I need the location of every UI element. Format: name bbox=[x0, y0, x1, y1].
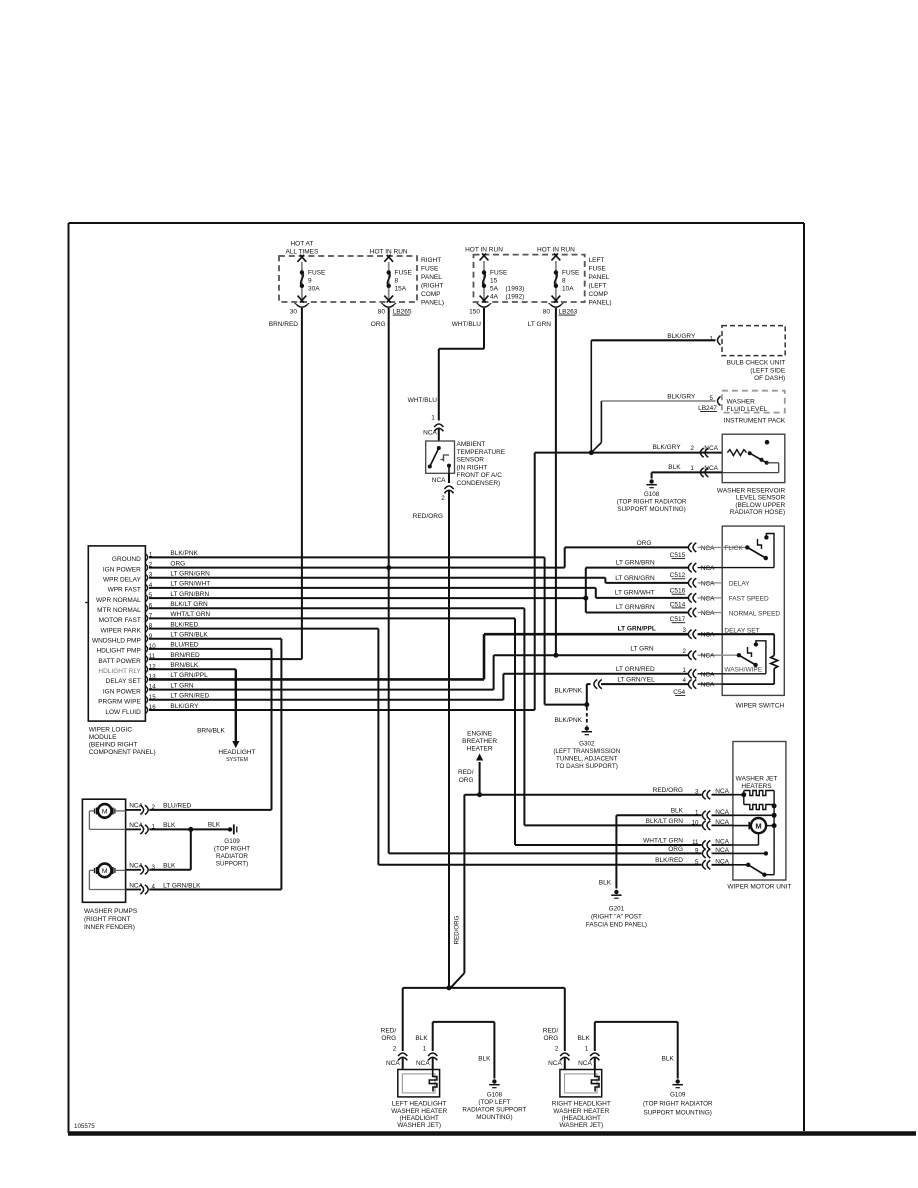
svg-text:FUSE: FUSE bbox=[395, 270, 413, 277]
wire BLK left heater to G108 bbox=[433, 1022, 495, 1079]
svg-text:TO DASH SUPPORT): TO DASH SUPPORT) bbox=[556, 763, 618, 770]
switch wire LT GRN pin2 WASH/WIPE bbox=[630, 646, 739, 660]
svg-text:NCA: NCA bbox=[578, 1060, 592, 1067]
wire 3 LT GRN/GRN to switch DELAY bbox=[149, 578, 688, 583]
svg-text:MODULE: MODULE bbox=[89, 734, 117, 741]
svg-text:WASH/WIPE: WASH/WIPE bbox=[724, 666, 762, 673]
wire 12 BRN/BLK to headlight system bbox=[149, 669, 256, 763]
switch wire LT GRN/GRN C516 DELAY bbox=[615, 575, 750, 595]
svg-text:FASCIA END PANEL): FASCIA END PANEL) bbox=[586, 922, 647, 929]
svg-text:ORG: ORG bbox=[170, 560, 185, 567]
svg-text:NORMAL SPEED: NORMAL SPEED bbox=[729, 611, 781, 618]
svg-text:WHT/LT GRN: WHT/LT GRN bbox=[170, 611, 210, 618]
svg-text:WHT/BLU: WHT/BLU bbox=[452, 321, 482, 328]
pump pin2 BLU/RED bbox=[126, 803, 192, 815]
svg-text:(RIGHT: (RIGHT bbox=[421, 283, 443, 290]
svg-text:C54: C54 bbox=[673, 689, 685, 696]
svg-text:LT GRN/RED: LT GRN/RED bbox=[170, 693, 209, 700]
svg-text:BLK/GRY: BLK/GRY bbox=[667, 333, 696, 340]
svg-text:BRN/RED: BRN/RED bbox=[269, 321, 299, 328]
switch wire LT GRN/RED pin1 bbox=[616, 666, 722, 678]
svg-text:G302: G302 bbox=[579, 741, 595, 748]
svg-text:BRN/BLK: BRN/BLK bbox=[197, 728, 225, 735]
svg-text:2: 2 bbox=[393, 1046, 397, 1053]
ground G109 top right radiator bbox=[643, 1079, 713, 1116]
svg-text:FUSE: FUSE bbox=[562, 270, 580, 277]
ambient temperature sensor bbox=[426, 441, 506, 487]
svg-text:HEATER: HEATER bbox=[467, 746, 493, 753]
svg-text:BLK/RED: BLK/RED bbox=[170, 621, 198, 628]
svg-text:DELAY: DELAY bbox=[729, 581, 750, 588]
motor pin5 BLK/RED bbox=[655, 857, 733, 869]
svg-text:FUSE: FUSE bbox=[589, 266, 607, 273]
svg-text:BLK/PNK: BLK/PNK bbox=[555, 717, 583, 724]
svg-text:C516: C516 bbox=[670, 588, 686, 595]
right fuse panel box bbox=[279, 256, 444, 307]
svg-text:LEFT: LEFT bbox=[589, 257, 605, 264]
fuse F8 15A bbox=[370, 249, 413, 316]
wire BLK to G201 bbox=[599, 815, 702, 888]
svg-text:NCA: NCA bbox=[701, 610, 715, 617]
svg-text:150: 150 bbox=[469, 309, 480, 316]
svg-text:WASHER RESERVOIR: WASHER RESERVOIR bbox=[717, 488, 786, 495]
switch wire LT GRN/WHT C514 FAST SPEED bbox=[615, 589, 769, 608]
svg-text:BLK/GRY: BLK/GRY bbox=[667, 394, 696, 401]
svg-text:WHT/LT GRN: WHT/LT GRN bbox=[643, 837, 683, 844]
svg-text:AMBIENT: AMBIENT bbox=[457, 441, 486, 448]
wire 1 BLK/PNK to G302 bbox=[149, 557, 587, 704]
motor pin10 BLK/LT GRN bbox=[646, 818, 733, 830]
node RED/ORG junction breather bbox=[477, 792, 482, 797]
svg-text:ORG: ORG bbox=[637, 540, 652, 547]
svg-text:M: M bbox=[102, 868, 108, 875]
svg-text:11: 11 bbox=[692, 839, 699, 846]
wire BLK/GRY LB247 to instrument pack pin5 bbox=[591, 394, 720, 453]
wire RED/ORG to headlight washer heaters bbox=[403, 988, 565, 1051]
wiper logic module U1 bbox=[85, 546, 155, 756]
svg-text:HOT IN RUN: HOT IN RUN bbox=[370, 249, 408, 256]
svg-text:M: M bbox=[755, 822, 761, 831]
motor pin3 RED/ORG bbox=[653, 787, 733, 799]
motor pin11 WHT/LT GRN bbox=[643, 837, 733, 849]
svg-text:ORG: ORG bbox=[668, 846, 683, 853]
svg-text:C514: C514 bbox=[670, 601, 686, 608]
svg-text:RADIATOR HOSE): RADIATOR HOSE) bbox=[730, 509, 785, 516]
svg-text:MTR NORMAL: MTR NORMAL bbox=[97, 607, 141, 614]
washer pump motor 2 bbox=[89, 864, 125, 890]
wire BLK/GRY to bulb check pin1 bbox=[591, 333, 720, 453]
right headlight washer heater bbox=[560, 1070, 602, 1097]
svg-text:G108: G108 bbox=[487, 1092, 503, 1099]
svg-text:PANEL: PANEL bbox=[589, 274, 610, 281]
svg-text:(BEHIND RIGHT: (BEHIND RIGHT bbox=[89, 742, 138, 749]
ground G108 radiator support bbox=[617, 479, 687, 513]
svg-text:RED/ORG: RED/ORG bbox=[413, 513, 443, 520]
svg-text:BREATHER: BREATHER bbox=[462, 738, 497, 745]
svg-text:BLK/GRY: BLK/GRY bbox=[653, 444, 682, 451]
svg-text:BLK: BLK bbox=[478, 1056, 491, 1063]
svg-text:NCA: NCA bbox=[715, 847, 729, 854]
svg-text:SUPPORT): SUPPORT) bbox=[216, 861, 248, 868]
washer pump motor 1 bbox=[89, 804, 125, 829]
left headlight washer heater pin2 RED/ORG bbox=[381, 1028, 408, 1070]
svg-text:WASHER JET: WASHER JET bbox=[736, 776, 778, 783]
svg-text:NCA: NCA bbox=[701, 682, 715, 689]
svg-text:NCA: NCA bbox=[701, 632, 715, 639]
svg-text:HDLIGHT PMP: HDLIGHT PMP bbox=[96, 648, 140, 655]
svg-text:BLK: BLK bbox=[163, 863, 176, 870]
ground G302 transmission tunnel bbox=[553, 707, 620, 770]
svg-text:(RIGHT FRONT: (RIGHT FRONT bbox=[84, 916, 130, 923]
svg-text:LT GRN/BRN: LT GRN/BRN bbox=[616, 560, 655, 567]
svg-text:SUPPORT MOUNTING): SUPPORT MOUNTING) bbox=[644, 1110, 712, 1117]
svg-text:RIGHT HEADLIGHT: RIGHT HEADLIGHT bbox=[552, 1101, 611, 1108]
svg-text:LT GRN: LT GRN bbox=[528, 321, 552, 328]
svg-text:HOT IN RUN: HOT IN RUN bbox=[537, 247, 575, 254]
svg-text:WIPER SWITCH: WIPER SWITCH bbox=[736, 703, 785, 710]
svg-text:(LEFT SIDE: (LEFT SIDE bbox=[750, 367, 786, 374]
svg-text:RADIATOR SUPPORT: RADIATOR SUPPORT bbox=[462, 1107, 526, 1114]
svg-text:NCA: NCA bbox=[704, 445, 718, 452]
module pin 16 BLK/GRY (LOW FLUID) bbox=[105, 703, 199, 716]
node RED/ORG bottom junction bbox=[447, 985, 452, 990]
svg-text:FUSE: FUSE bbox=[490, 270, 508, 277]
svg-text:LOW FLUID: LOW FLUID bbox=[105, 709, 141, 716]
svg-text:1: 1 bbox=[585, 1046, 589, 1053]
svg-text:NCA: NCA bbox=[548, 1060, 562, 1067]
svg-text:LT GRN/PPL: LT GRN/PPL bbox=[618, 626, 656, 633]
switch wire LT GRN/BRN C517 NORMAL SPEED bbox=[616, 604, 780, 623]
right headlight washer heater pin2 RED/ORG bbox=[543, 1028, 570, 1070]
wire BLK sensor pin1 to G108 bbox=[652, 464, 723, 479]
svg-text:2: 2 bbox=[683, 648, 687, 655]
washer reservoir level sensor bbox=[717, 434, 786, 516]
svg-text:C512: C512 bbox=[670, 572, 686, 579]
switch internals DELAY SET resistor R1 bbox=[722, 634, 778, 684]
svg-text:WPR DELAY: WPR DELAY bbox=[103, 577, 141, 584]
washer jet heater elements bbox=[741, 791, 776, 810]
wire 4 LT GRN/WHT to switch FAST SPEED bbox=[149, 588, 688, 598]
svg-text:SUPPORT MOUNTING): SUPPORT MOUNTING) bbox=[617, 506, 685, 513]
svg-text:15: 15 bbox=[490, 278, 498, 285]
pump pin3 BLK bbox=[126, 863, 176, 875]
svg-text:BLK: BLK bbox=[599, 880, 612, 887]
module pin 4 LT GRN/WHT (WPR FAST) bbox=[108, 581, 211, 594]
module pin 11 BRN/RED (BATT POWER) bbox=[98, 652, 200, 665]
svg-text:1: 1 bbox=[709, 335, 713, 342]
svg-text:LT GRN/GRN: LT GRN/GRN bbox=[615, 575, 655, 582]
wire 15 LT GRN/RED to switch pin1 bbox=[149, 674, 688, 700]
svg-text:(RIGHT "A" POST: (RIGHT "A" POST bbox=[591, 914, 642, 921]
svg-text:WNDSHLD PMP: WNDSHLD PMP bbox=[92, 638, 141, 645]
wire RED/ORG to wiper motor pin3 bbox=[451, 795, 702, 988]
svg-text:5A: 5A bbox=[490, 286, 499, 293]
svg-text:HOT IN RUN: HOT IN RUN bbox=[465, 247, 503, 254]
svg-text:NCA: NCA bbox=[701, 545, 715, 552]
svg-text:1: 1 bbox=[683, 667, 687, 674]
module pin 12 BRN/BLK (HDLIGHT RLY) bbox=[98, 662, 198, 675]
svg-text:15A: 15A bbox=[395, 286, 407, 293]
svg-text:LEFT HEADLIGHT: LEFT HEADLIGHT bbox=[392, 1101, 447, 1108]
node LT GRN junction bbox=[553, 653, 558, 658]
ground G201 A post fascia bbox=[586, 890, 647, 929]
svg-text:NCA: NCA bbox=[416, 1060, 430, 1067]
svg-text:WASHER: WASHER bbox=[727, 399, 756, 406]
wire BLK/PNK inline connector to LT GRN/YEL bbox=[555, 680, 602, 705]
svg-text:2: 2 bbox=[441, 495, 445, 502]
svg-text:LT GRN: LT GRN bbox=[630, 646, 654, 653]
svg-text:NCA: NCA bbox=[701, 653, 715, 660]
module pin 7 WHT/LT GRN (MOTOR FAST) bbox=[99, 611, 211, 624]
svg-text:RED/ORG: RED/ORG bbox=[454, 915, 461, 944]
svg-text:LT GRN/BRN: LT GRN/BRN bbox=[616, 604, 655, 611]
svg-text:80: 80 bbox=[543, 309, 551, 316]
svg-text:4A: 4A bbox=[490, 294, 499, 301]
svg-text:RED/: RED/ bbox=[381, 1028, 397, 1035]
svg-text:HEATERS: HEATERS bbox=[741, 783, 772, 790]
svg-text:NCA: NCA bbox=[701, 565, 715, 572]
switch wire LT GRN/PPL pin3 DELAY SET bbox=[618, 626, 760, 639]
instrument pack washer fluid level bbox=[722, 391, 786, 425]
wiper motor unit M1 bbox=[727, 742, 791, 891]
svg-text:WPR NORMAL: WPR NORMAL bbox=[96, 597, 141, 604]
svg-text:FLICK: FLICK bbox=[724, 545, 743, 552]
wire 14 LT GRN to switch WASH/WIPE bbox=[149, 655, 688, 689]
svg-text:BLK/LT GRN: BLK/LT GRN bbox=[170, 601, 208, 608]
svg-text:NCA: NCA bbox=[704, 465, 718, 472]
pump pin1 BLK bbox=[126, 822, 176, 834]
svg-text:4: 4 bbox=[683, 677, 687, 684]
module pin 5 LT GRN/BRN (WPR NORMAL) bbox=[96, 591, 209, 604]
svg-text:WASHER JET): WASHER JET) bbox=[559, 1122, 603, 1129]
svg-text:LT GRN/WHT: LT GRN/WHT bbox=[615, 589, 655, 596]
svg-text:(IN RIGHT: (IN RIGHT bbox=[457, 464, 488, 471]
wiper motor M bbox=[749, 806, 776, 875]
svg-text:30A: 30A bbox=[308, 286, 320, 293]
fuse F9 30A bbox=[285, 241, 326, 316]
wiper motor park switch bbox=[746, 851, 774, 877]
svg-text:HDLIGHT RLY: HDLIGHT RLY bbox=[98, 668, 141, 675]
wire BRN/RED fuse9 to module pin11 bbox=[149, 308, 302, 659]
svg-text:BLK: BLK bbox=[668, 464, 681, 471]
svg-text:ORG: ORG bbox=[381, 1035, 396, 1042]
svg-text:NCA: NCA bbox=[715, 788, 729, 795]
wire 7 WHT/LT GRN to wiper motor pin11 bbox=[149, 618, 702, 845]
wire BLK pump pins to G109 bbox=[149, 822, 228, 870]
svg-text:(1992): (1992) bbox=[506, 294, 525, 301]
module pin 9 LT GRN/BLK (WNDSHLD PMP) bbox=[92, 632, 208, 645]
svg-text:BLK/PNK: BLK/PNK bbox=[170, 550, 198, 557]
svg-text:(TOP RIGHT RADIATOR: (TOP RIGHT RADIATOR bbox=[617, 499, 687, 506]
svg-text:WASHER HEATER: WASHER HEATER bbox=[391, 1108, 447, 1115]
svg-text:LB263: LB263 bbox=[559, 309, 578, 316]
wire WHT/BLU fuse15 to ambient sensor bbox=[408, 308, 484, 441]
svg-text:MOUNTING): MOUNTING) bbox=[476, 1114, 512, 1121]
svg-text:(TOP RIGHT RADIATOR: (TOP RIGHT RADIATOR bbox=[643, 1101, 713, 1108]
svg-text:PANEL: PANEL bbox=[421, 274, 442, 281]
svg-text:G109: G109 bbox=[224, 838, 240, 845]
svg-text:ENGINE: ENGINE bbox=[467, 731, 493, 738]
module pin 3 LT GRN/GRN (WPR DELAY) bbox=[103, 571, 210, 584]
switch wire LT GRN/BRN C512 bbox=[616, 560, 722, 580]
svg-text:BLU/RED: BLU/RED bbox=[163, 803, 191, 810]
right headlight washer heater pin1 BLK bbox=[578, 1022, 600, 1070]
washer pumps P1 P2 bbox=[82, 799, 137, 931]
svg-text:HOT AT: HOT AT bbox=[290, 241, 313, 248]
svg-text:ORG: ORG bbox=[459, 777, 474, 784]
svg-text:WASHER JET): WASHER JET) bbox=[397, 1122, 441, 1129]
svg-text:NCA: NCA bbox=[715, 839, 729, 846]
svg-text:11: 11 bbox=[149, 653, 156, 660]
svg-text:BLU/RED: BLU/RED bbox=[170, 642, 198, 649]
svg-text:WIPER LOGIC: WIPER LOGIC bbox=[89, 727, 133, 734]
right heater label bbox=[552, 1101, 611, 1130]
wire 8 BLK/RED to wiper motor pin5 bbox=[149, 629, 702, 865]
node BLK/PNK junction G302 bbox=[584, 702, 589, 707]
svg-text:30: 30 bbox=[290, 309, 298, 316]
switch wire LT GRN/YEL pin4 C54 bbox=[601, 676, 722, 695]
svg-text:8: 8 bbox=[395, 278, 399, 285]
svg-text:BLK: BLK bbox=[662, 1056, 675, 1063]
svg-text:10A: 10A bbox=[562, 286, 574, 293]
svg-text:10: 10 bbox=[692, 819, 699, 826]
svg-text:PANEL): PANEL) bbox=[589, 300, 612, 307]
svg-text:RIGHT: RIGHT bbox=[421, 257, 441, 264]
svg-text:LB247: LB247 bbox=[698, 405, 717, 412]
svg-text:LT GRN/BLK: LT GRN/BLK bbox=[170, 632, 208, 639]
switch wire ORG C515 FLICK bbox=[637, 540, 748, 559]
svg-text:BLK/LT GRN: BLK/LT GRN bbox=[646, 818, 684, 825]
module pin 8 BLK/RED (WIPER PARK) bbox=[100, 621, 198, 634]
svg-text:RADIATOR: RADIATOR bbox=[216, 853, 248, 860]
svg-text:ORG: ORG bbox=[371, 321, 386, 328]
svg-text:8: 8 bbox=[562, 278, 566, 285]
svg-text:SYSTEM: SYSTEM bbox=[226, 757, 248, 763]
svg-text:PANEL): PANEL) bbox=[421, 300, 444, 307]
module pin 13 LT GRN/PPL (DELAY SET) bbox=[106, 672, 208, 685]
svg-text:M: M bbox=[102, 809, 108, 816]
svg-text:9: 9 bbox=[308, 278, 312, 285]
svg-text:G108: G108 bbox=[644, 491, 660, 498]
svg-text:DELAY SET: DELAY SET bbox=[106, 678, 141, 685]
svg-text:LT GRN/WHT: LT GRN/WHT bbox=[170, 581, 210, 588]
motor internal wires bbox=[733, 795, 774, 865]
svg-text:WASHER HEATER: WASHER HEATER bbox=[553, 1108, 609, 1115]
svg-text:NCA: NCA bbox=[432, 477, 446, 484]
module pin 1 BLK/PNK (GROUND) bbox=[112, 550, 199, 563]
svg-text:NCA: NCA bbox=[715, 858, 729, 865]
wire 16 BLK/GRY to washer fluid level trunk bbox=[149, 453, 722, 710]
svg-text:1: 1 bbox=[691, 465, 695, 472]
svg-text:BLK: BLK bbox=[415, 1035, 428, 1042]
svg-text:G109: G109 bbox=[670, 1092, 686, 1099]
svg-text:IGN POWER: IGN POWER bbox=[103, 566, 141, 573]
svg-text:TEMPERATURE: TEMPERATURE bbox=[457, 449, 506, 456]
wire LT GRN fuse8L trunk bbox=[528, 308, 556, 655]
left heater label bbox=[391, 1101, 447, 1130]
svg-text:RED/: RED/ bbox=[458, 769, 474, 776]
wire BLK right heater to G109 bbox=[595, 1022, 678, 1079]
svg-text:105575: 105575 bbox=[74, 1123, 95, 1130]
node ORG junction at module pin2 bbox=[386, 565, 391, 570]
wire 6 BLK/LT GRN to wiper motor pin10 bbox=[149, 608, 702, 825]
svg-text:FAST SPEED: FAST SPEED bbox=[729, 595, 769, 602]
svg-text:NCA: NCA bbox=[386, 1060, 400, 1067]
svg-text:NCA: NCA bbox=[715, 819, 729, 826]
wire 10 BLU/RED to washer pump pin2 bbox=[149, 649, 272, 810]
svg-text:TUNNEL, ADJACENT: TUNNEL, ADJACENT bbox=[556, 756, 618, 763]
left headlight washer heater pin1 BLK bbox=[415, 1022, 437, 1070]
svg-text:LT GRN/GRN: LT GRN/GRN bbox=[170, 571, 210, 578]
svg-text:FUSE: FUSE bbox=[308, 270, 326, 277]
svg-text:1: 1 bbox=[431, 415, 435, 422]
svg-text:BRN/BLK: BRN/BLK bbox=[170, 662, 198, 669]
svg-text:WASHER PUMPS: WASHER PUMPS bbox=[84, 908, 138, 915]
svg-text:FLUID LEVEL: FLUID LEVEL bbox=[727, 406, 768, 413]
motor pin1 BLK bbox=[671, 808, 733, 820]
wire RED/ORG to engine breather heater bbox=[458, 731, 497, 795]
wiper switch S1 bbox=[722, 526, 784, 709]
motor pin9 ORG bbox=[668, 846, 733, 858]
svg-text:NCA: NCA bbox=[701, 671, 715, 678]
svg-text:BULB CHECK UNIT: BULB CHECK UNIT bbox=[727, 360, 786, 367]
svg-text:IGN POWER: IGN POWER bbox=[103, 688, 141, 695]
svg-text:WIPER PARK: WIPER PARK bbox=[100, 627, 141, 634]
svg-text:BLK/GRY: BLK/GRY bbox=[170, 703, 199, 710]
svg-text:(HEADLIGHT: (HEADLIGHT bbox=[562, 1115, 601, 1122]
svg-text:LT GRN: LT GRN bbox=[170, 682, 194, 689]
svg-text:INNER FENDER): INNER FENDER) bbox=[84, 924, 135, 931]
svg-text:BLK: BLK bbox=[578, 1035, 591, 1042]
border frame bbox=[68, 223, 916, 1134]
svg-text:G201: G201 bbox=[609, 906, 625, 913]
svg-text:WHT/BLU: WHT/BLU bbox=[408, 397, 438, 404]
svg-text:HEADLIGHT: HEADLIGHT bbox=[218, 749, 255, 756]
wire BLU/RED pump to module bbox=[149, 809, 271, 811]
svg-text:NCA: NCA bbox=[715, 809, 729, 816]
svg-text:NCA: NCA bbox=[701, 595, 715, 602]
svg-text:3: 3 bbox=[683, 627, 687, 634]
svg-text:5: 5 bbox=[695, 859, 699, 866]
svg-text:5: 5 bbox=[709, 395, 713, 402]
svg-text:FUSE: FUSE bbox=[421, 266, 439, 273]
svg-text:MOTOR FAST: MOTOR FAST bbox=[99, 617, 141, 624]
svg-text:C517: C517 bbox=[670, 616, 686, 623]
svg-text:BLK/RED: BLK/RED bbox=[655, 857, 683, 864]
svg-text:(HEADLIGHT: (HEADLIGHT bbox=[400, 1115, 439, 1122]
pump pin4 LT GRN/BLK bbox=[126, 882, 201, 894]
svg-text:C515: C515 bbox=[670, 552, 686, 559]
node BLK/GRY junction bbox=[589, 450, 594, 455]
svg-text:COMPONENT PANEL): COMPONENT PANEL) bbox=[89, 749, 156, 756]
svg-text:(LEFT TRANSMISSION: (LEFT TRANSMISSION bbox=[553, 748, 620, 755]
svg-text:COMP: COMP bbox=[421, 291, 441, 298]
module pin 14 LT GRN (IGN POWER) bbox=[103, 682, 194, 695]
svg-text:RED/: RED/ bbox=[543, 1028, 559, 1035]
wire BLK/GRY sensor pin2 bbox=[653, 444, 719, 457]
wire RED/ORG sensor pin2 to bottom junction bbox=[413, 473, 454, 988]
svg-text:NCA: NCA bbox=[701, 580, 715, 587]
wire ORG fuse8 trunk bbox=[371, 308, 702, 853]
svg-text:WIPER MOTOR UNIT: WIPER MOTOR UNIT bbox=[727, 884, 791, 891]
ground G109 connector bbox=[214, 824, 250, 867]
module pin 10 BLU/RED (HDLIGHT PMP) bbox=[96, 642, 198, 655]
svg-text:LT GRN/RED: LT GRN/RED bbox=[616, 666, 655, 673]
svg-text:ORG: ORG bbox=[543, 1035, 558, 1042]
svg-text:RED/ORG: RED/ORG bbox=[653, 787, 683, 794]
svg-text:OF DASH): OF DASH) bbox=[754, 375, 785, 382]
svg-text:(TOP LEFT: (TOP LEFT bbox=[478, 1099, 510, 1106]
